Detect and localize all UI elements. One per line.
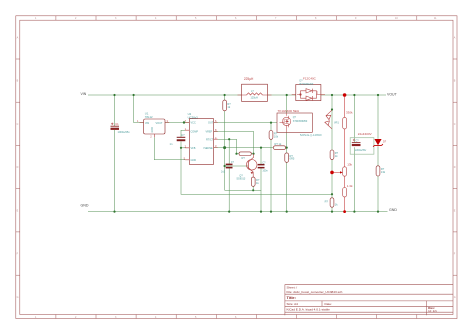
svg-text:C?: C? [262,162,266,165]
svg-text:VOUT: VOUT [156,122,163,125]
wire GND rail [88,211,388,213]
svg-text:10k: 10k [274,134,279,138]
svg-text:C: C [17,123,19,126]
resistor 330k [343,110,353,128]
wire MOSFET source sense [286,132,288,211]
resistor R isense series [274,142,286,149]
svg-text:5: 5 [195,17,197,20]
svg-text:4: 4 [155,17,157,20]
svg-text:6: 6 [235,17,237,20]
resistor R vin dropper [223,100,231,111]
wire VFB pin [181,147,189,149]
MOSFET Q1 TK10A60D [277,109,322,137]
svg-text:VOUT: VOUT [387,92,398,96]
resistor 1.3k [343,184,353,197]
capacitor Ct timing [221,161,235,173]
svg-text:STW45NM50: STW45NM50 [293,120,308,123]
svg-text:R?: R? [325,199,329,203]
svg-text:F: F [454,253,456,256]
svg-text:F12C40C: F12C40C [303,77,317,81]
resistor R load [376,166,386,176]
wire zener load branch [377,95,379,212]
resistor R emitter [251,177,260,186]
svg-text:C1: C1 [115,122,119,126]
svg-text:Title:: Title: [287,295,296,300]
wire COMP branch [181,130,189,148]
svg-text:D: D [17,166,19,169]
wire U2 OUT gate line [214,122,277,124]
svg-text:Id: 1/1: Id: 1/1 [428,309,437,313]
svg-text:13k: 13k [347,162,352,166]
svg-text:G: G [17,296,19,299]
wire FB divider net (red) [332,95,345,212]
wire RT/CT [214,139,239,154]
wire ISENSE line [214,147,287,149]
svg-text:D?: D? [383,140,387,143]
svg-text:BYW29E200: BYW29E200 [300,83,314,86]
wire MOSFET drain [286,95,288,113]
wire isense filter cap branch [260,148,262,191]
resistor R sense [285,153,295,162]
svg-text:C?: C? [231,161,235,164]
compensation capacitor C2 [170,133,186,146]
svg-text:1n: 1n [170,142,173,146]
svg-text:File: dcdc_boost_converter_UC3: File: dcdc_boost_converter_UC3843.sch [287,290,343,294]
svg-text:Size: A4: Size: A4 [287,302,299,306]
varistor VR1 [325,110,340,129]
svg-text:22uF400V: 22uF400V [358,132,372,136]
svg-text:78L12: 78L12 [145,115,153,119]
title block [285,285,453,316]
svg-text:UC38x3: UC38x3 [188,115,199,119]
svg-text:OUT: OUT [208,122,214,125]
svg-text:E: E [17,209,19,212]
capacitor isense filter [258,162,269,173]
svg-text:100n: 100n [262,170,268,173]
svg-text:520Vds-(}-1435zF: 520Vds-(}-1435zF [300,134,322,137]
wire VIN rail [88,95,388,212]
wire output cap branch [353,95,355,212]
wire VFB bus [181,148,332,194]
svg-text:GND: GND [191,159,197,162]
svg-text:2200u/35v: 2200u/35v [355,149,367,152]
svg-text:D: D [454,166,456,169]
svg-text:A: A [454,37,456,40]
resistor R bias (above BJT) [239,152,251,160]
svg-text:R? 1k: R? 1k [275,142,282,146]
capacitor C1 [111,122,131,134]
svg-text:VIN: VIN [81,92,87,96]
svg-text:2: 2 [75,17,77,20]
svg-text:KiCad E.D.A. kicad 4.0.1-stab: KiCad E.D.A. kicad 4.0.1-stable [287,308,331,312]
wire BJT base line [225,148,249,191]
svg-text:11: 11 [434,17,437,20]
potentiometer 13k [340,162,353,176]
svg-text:SS9013: SS9013 [236,178,246,181]
svg-text:B: B [17,80,19,83]
svg-text:A: A [17,37,19,40]
svg-text:1.3k: 1.3k [347,184,353,188]
svg-text:330k: 330k [346,110,353,114]
wire U1 out to U2 VCC [165,122,189,124]
transistor Q2 SS9013 [236,154,257,181]
wire C1 branch [114,95,116,212]
controller U2 UC38x3 [184,112,217,164]
svg-text:3: 3 [115,17,117,20]
svg-text:F: F [17,253,19,256]
svg-text:E: E [454,209,456,212]
svg-text:7: 7 [275,17,277,20]
svg-text:C?: C? [181,133,185,137]
wire VIN dropper branch [224,95,226,148]
wire Ct timing cap branch [228,139,230,211]
svg-text:2: 2 [150,134,152,138]
wire switch node segment [267,94,295,96]
U2 pin numbers [184,119,217,160]
svg-text:1000u/35v: 1000u/35v [118,130,131,134]
svg-text:G: G [454,296,456,299]
svg-text:GND: GND [151,127,154,133]
diode D1 F12C40C [296,77,321,101]
wire VOUT rail [321,94,386,96]
svg-text:225µH: 225µH [244,77,254,81]
svg-text:9: 9 [355,17,357,20]
svg-text:GND: GND [81,203,89,207]
regulator U1 78L12 [137,112,169,139]
inductor L1 225uH [242,77,268,101]
svg-text:VR1: VR1 [334,121,339,124]
svg-text:TK10A60D 5EΩ: TK10A60D 5EΩ [278,109,300,113]
resistor R lower divider [325,198,339,207]
svg-text:VREF: VREF [206,130,213,133]
wire VREF branch [214,132,254,154]
svg-text:VFB: VFB [191,147,196,150]
svg-text:125uH: 125uH [251,97,259,100]
svg-text:C: C [454,123,456,126]
svg-text:VIN: VIN [145,122,149,125]
wire emitter/gnd bus [225,190,261,211]
svg-text:0R5: 0R5 [290,157,295,161]
svg-text:13k: 13k [381,170,386,174]
svg-text:2n2: 2n2 [221,170,226,173]
wire pot wiper [332,171,341,173]
svg-text:B: B [454,80,456,83]
svg-text:COMP: COMP [191,130,199,133]
svg-text:VCC: VCC [191,122,196,125]
red net junction dots [330,93,346,213]
wire gate pulldown [270,123,272,212]
svg-text:C?: C? [356,139,360,142]
svg-text:GND: GND [389,208,397,212]
svg-text:Date:: Date: [325,302,333,306]
resistor R gate pulldown [269,131,279,140]
junction dots [113,94,379,213]
svg-text:1: 1 [35,17,37,20]
wire snubber branch [331,95,333,212]
zener diode D2 [373,139,387,147]
wire U1 GND to U2 GND [154,137,189,160]
wire U1 input branch [134,95,144,123]
resistor R snubber [330,150,339,159]
svg-text:10: 10 [395,17,398,20]
output capacitor 22uF 400V [350,132,374,154]
svg-text:ISENSE: ISENSE [204,147,214,150]
svg-text:R?: R? [242,156,246,160]
svg-text:RT/CT: RT/CT [206,139,214,142]
svg-text:8: 8 [315,17,317,20]
svg-text:1k: 1k [335,202,338,206]
pin stubs (red) [140,95,326,160]
wire emitter resistor to bus [252,186,254,190]
U1 pin 2 [153,134,155,137]
